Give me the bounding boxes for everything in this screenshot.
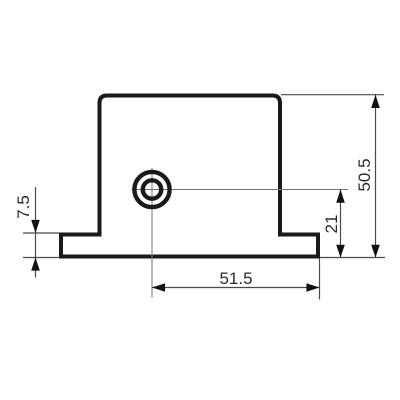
arrow 51.5 right	[306, 283, 319, 292]
dimension line 50.5	[375, 95, 377, 258]
dimension line 7.5	[35, 187, 37, 278]
extension line 7.5 top	[23, 232, 60, 234]
svg-text:51.5: 51.5	[219, 269, 252, 288]
arrow 50.5 top	[371, 95, 380, 108]
svg-text:50.5: 50.5	[355, 158, 374, 191]
extension line 51.5 right	[319, 259, 321, 300]
part outline (bracket body with base flange)	[61, 96, 318, 257]
arrow 7.5 upper (points down)	[31, 220, 40, 233]
arrow 21 bottom	[336, 245, 345, 258]
horizontal centerline of hole	[132, 189, 349, 191]
vertical centerline of hole	[151, 168, 153, 298]
extension line 7.5 bottom	[23, 257, 60, 259]
arrow 7.5 lower (points up)	[31, 258, 40, 271]
hole outer circle	[134, 172, 169, 207]
extension line bottom right	[320, 257, 385, 259]
svg-text:7.5: 7.5	[14, 195, 33, 219]
dimension line 21	[340, 190, 342, 258]
svg-text:21: 21	[322, 215, 341, 234]
arrow 50.5 bottom	[371, 245, 380, 258]
arrow 51.5 left	[152, 283, 165, 292]
extension line top right	[281, 94, 384, 96]
hole inner circle	[143, 180, 161, 198]
arrow 21 top	[336, 190, 345, 203]
dimension line 51.5	[152, 287, 320, 289]
